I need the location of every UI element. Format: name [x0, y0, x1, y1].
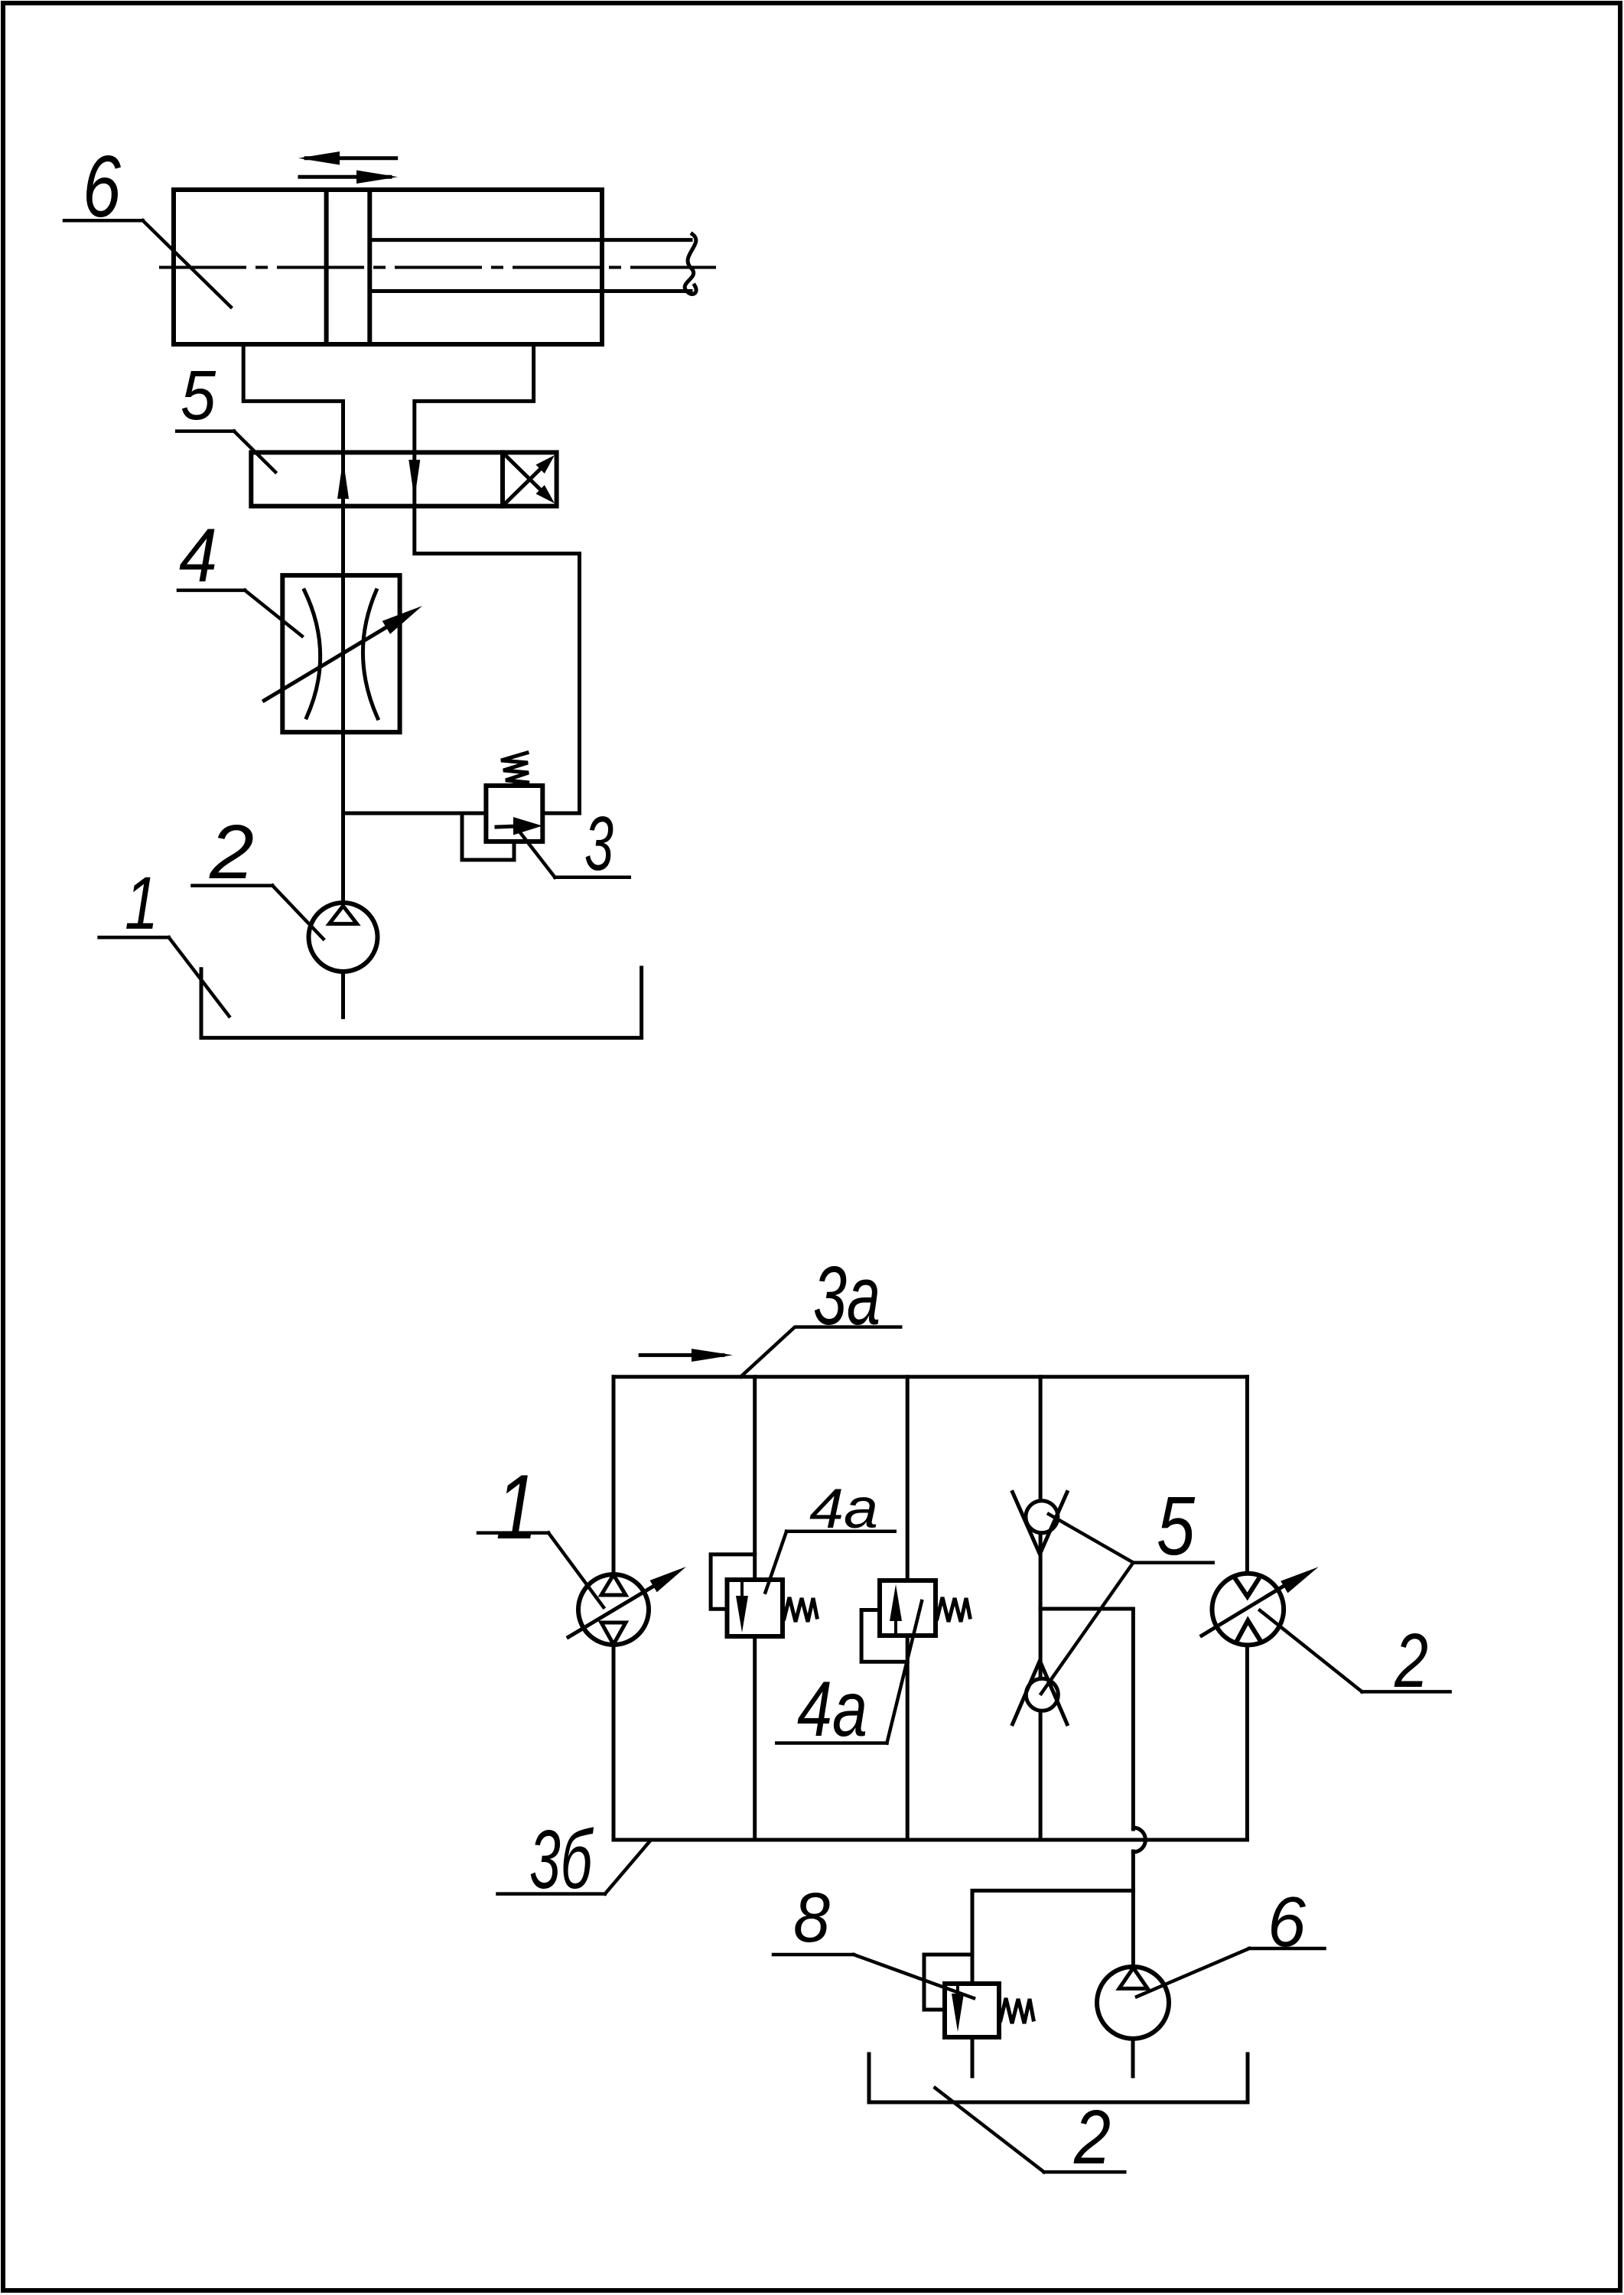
- junction to relief valve 3: [343, 812, 487, 815]
- motor 2 circle: [1212, 1574, 1284, 1646]
- svg-text:2: 2: [1394, 1618, 1428, 1704]
- svg-text:4а: 4а: [797, 1665, 867, 1753]
- relief valve 8 arrow: [952, 1994, 964, 2032]
- svg-text:3б: 3б: [529, 1813, 594, 1906]
- throttle valve 4 body: [282, 575, 399, 732]
- svg-text:1: 1: [496, 1456, 538, 1558]
- label 6 leader (boost): [1137, 1948, 1325, 1997]
- relief valve 8 body: [945, 1984, 999, 2037]
- label 2 leader (tank): [935, 2088, 1124, 2172]
- pump 1 column wire: [612, 1377, 616, 1840]
- line 3b (bottom bus): [613, 1838, 1247, 1842]
- label 4a-1 leader: [766, 1532, 895, 1593]
- relief valve 4a-1 body: [727, 1580, 783, 1636]
- line 3a (top bus): [613, 1375, 1247, 1379]
- label 6 leader: [64, 220, 231, 307]
- svg-text:5: 5: [1157, 1480, 1195, 1573]
- label 4 leader: [178, 591, 302, 636]
- branch wire to relief 8: [972, 1890, 1133, 1984]
- check valve 5 upper seat: [1013, 1493, 1067, 1554]
- pump 1 lower triangle: [601, 1623, 626, 1645]
- check valves column wire: [1039, 1377, 1043, 1840]
- check valve 5 lower seat: [1013, 1661, 1067, 1724]
- wire cylinder left port to valve: [243, 344, 343, 452]
- label 1 leader (bottom): [478, 1533, 604, 1607]
- throttle 4 adjustment arrow: [264, 623, 394, 701]
- svg-text:2: 2: [209, 809, 254, 895]
- cylinder 6 body: [174, 190, 602, 344]
- boost junction wire: [1040, 1609, 1133, 1829]
- piston rod: [369, 234, 696, 295]
- boost pump 6 triangle: [1119, 1968, 1147, 1988]
- relief valve 4a-1 spring: [784, 1597, 817, 1622]
- pump 2 circle: [309, 903, 378, 972]
- relief valve 4a-2 body: [880, 1580, 936, 1636]
- motor column wire: [1245, 1377, 1249, 1840]
- motor 2 variable arrow: [1202, 1580, 1293, 1636]
- pump 1 circle: [578, 1574, 649, 1645]
- svg-text:5: 5: [181, 356, 216, 435]
- motion arrow left: [298, 151, 396, 165]
- throttle 4 venturi arcs: [304, 591, 321, 718]
- relief valve 4a-1 pilot line: [711, 1554, 755, 1609]
- cylinder axis center line: [161, 266, 714, 269]
- svg-text:6: 6: [1268, 1882, 1306, 1961]
- label 8 leader: [773, 1955, 974, 1998]
- label 3a leader: [740, 1327, 900, 1377]
- relief valve 3 flow arrow: [496, 826, 517, 827]
- pump 2 triangle: [329, 906, 356, 923]
- svg-text:2: 2: [1073, 2095, 1111, 2180]
- svg-text:3: 3: [584, 801, 613, 887]
- label 5 leaders: [1041, 1514, 1213, 1694]
- tank 2: [869, 2054, 1248, 2102]
- relief valve 4a-2 arrow: [890, 1584, 902, 1621]
- relief valve 3 body: [486, 786, 542, 841]
- boost pump 6 circle: [1097, 1967, 1169, 2039]
- svg-text:8: 8: [793, 1879, 830, 1957]
- valve 5 flow path up arrow: [341, 452, 345, 506]
- tank 1: [201, 968, 642, 1038]
- relief valve 4a-2 pilot line: [861, 1610, 907, 1662]
- label 2 leader: [193, 886, 324, 939]
- valve 5 flow path down arrow: [412, 452, 416, 506]
- motor 2 lower chevron: [1237, 1620, 1260, 1640]
- wire hop to pump 6: [1131, 1851, 1135, 1968]
- svg-text:1: 1: [125, 861, 158, 945]
- wire cylinder right port to valve: [415, 344, 534, 452]
- svg-text:4а: 4а: [809, 1478, 878, 1540]
- relief valve 8 spring: [1001, 1998, 1033, 2023]
- check valve 5 upper ball: [1026, 1501, 1058, 1533]
- directional valve 5 body: [251, 452, 556, 506]
- relief 4a-2 column wire: [906, 1377, 910, 1840]
- valve 5 crossed position X: [506, 455, 555, 503]
- check valve 5 lower ball: [1026, 1678, 1058, 1711]
- pump 1 upper triangle: [601, 1575, 626, 1596]
- flow direction arrow: [640, 1353, 723, 1357]
- return line valve to relief valve 3: [415, 506, 580, 813]
- line hop over 3b: [1133, 1828, 1145, 1852]
- motor 2 upper chevron: [1235, 1579, 1258, 1597]
- label 2 leader (motor): [1260, 1610, 1450, 1691]
- label 3 leader: [519, 832, 630, 877]
- label 4a-2 leader: [776, 1601, 922, 1743]
- svg-text:6: 6: [83, 138, 121, 236]
- svg-text:4: 4: [179, 513, 217, 597]
- relief valve 4a-1 arrow: [736, 1596, 748, 1633]
- label 1 leader: [99, 937, 229, 1016]
- relief valve 8 pilot line: [924, 1955, 972, 2010]
- relief valve 3 spring: [501, 753, 529, 786]
- pump 1 variable arrow: [568, 1584, 658, 1637]
- relief valve 4a-2 spring: [937, 1597, 970, 1622]
- relief valve 3 pilot line: [462, 813, 514, 860]
- boost pump 6 suction: [1131, 2039, 1135, 2076]
- svg-text:3а: 3а: [813, 1249, 880, 1343]
- label 3b leader: [498, 1842, 649, 1894]
- pump 2 suction line: [341, 972, 345, 1017]
- main pressure line (pump to valve): [341, 506, 345, 907]
- motion arrow right: [300, 171, 398, 184]
- label 5 leader: [177, 431, 275, 472]
- relief 4a-1 column wire: [753, 1377, 757, 1840]
- relief valve 8 drain: [971, 2037, 975, 2076]
